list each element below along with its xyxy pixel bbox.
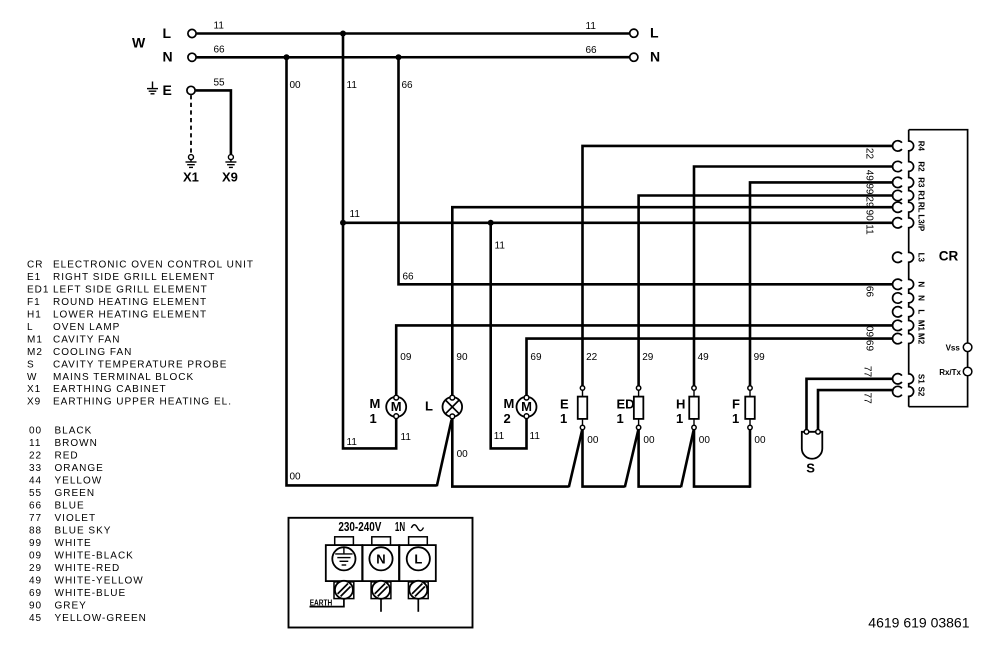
svg-text:WHITE-BLACK: WHITE-BLACK — [55, 550, 134, 561]
wire 00 from N line down and bottom bus left — [287, 57, 437, 485]
svg-text:L3: L3 — [917, 253, 926, 263]
element ED1 — [636, 386, 640, 390]
svg-text:22: 22 — [863, 148, 874, 160]
svg-text:M1: M1 — [917, 320, 926, 332]
terminal tab earth — [335, 537, 354, 545]
svg-text:GREEN: GREEN — [55, 488, 96, 499]
svg-text:11: 11 — [863, 224, 874, 235]
svg-text:99: 99 — [863, 183, 874, 195]
svg-text:S: S — [27, 359, 35, 370]
pin N connector arc — [893, 279, 902, 289]
svg-text:00: 00 — [29, 426, 42, 437]
svg-text:N: N — [650, 49, 660, 65]
svg-text:H1: H1 — [27, 310, 42, 321]
svg-text:Rx/Tx: Rx/Tx — [939, 368, 961, 377]
earth symbol X9 — [230, 160, 232, 162]
wire 00 from E1 down to bus — [583, 430, 625, 487]
svg-text:BLUE: BLUE — [55, 501, 85, 512]
svg-text:29: 29 — [863, 196, 874, 208]
svg-text:90: 90 — [29, 600, 42, 611]
wire 00 diagonal to H1 — [681, 430, 694, 487]
svg-text:N: N — [163, 49, 173, 65]
terminal L right circle — [630, 29, 638, 37]
svg-text:11: 11 — [586, 21, 597, 32]
svg-text:66: 66 — [29, 501, 42, 512]
svg-text:X1: X1 — [183, 170, 199, 185]
svg-text:R2: R2 — [917, 161, 926, 172]
screw earth — [335, 581, 353, 599]
terminal N right circle — [630, 53, 638, 61]
svg-text:77: 77 — [862, 393, 873, 405]
N terminal circle — [369, 547, 392, 570]
svg-text:RL: RL — [917, 202, 926, 213]
svg-text:BROWN: BROWN — [55, 438, 98, 449]
svg-text:CAVITY FAN: CAVITY FAN — [53, 334, 120, 345]
svg-text:W: W — [132, 35, 146, 51]
junction on L line — [340, 31, 346, 37]
svg-text:L: L — [414, 552, 422, 567]
svg-text:00: 00 — [754, 435, 766, 446]
earth symbol in circle — [343, 548, 345, 554]
wire 00 from ED1 down to bus — [639, 430, 681, 487]
svg-text:1: 1 — [617, 411, 624, 426]
svg-text:WHITE-BLUE: WHITE-BLUE — [55, 588, 127, 599]
svg-text:N: N — [376, 552, 385, 567]
earth symbol at E — [152, 82, 154, 89]
terminal square L — [399, 545, 435, 581]
svg-text:69: 69 — [29, 588, 42, 599]
svg-text:L: L — [650, 25, 659, 41]
svg-text:M: M — [391, 399, 402, 414]
wire N line 66 — [197, 56, 630, 59]
wire 00 from F1 down to bus — [749, 430, 752, 488]
wire 77 from CR S1 to probe — [807, 379, 893, 431]
svg-text:GREY: GREY — [55, 600, 87, 611]
svg-text:S1: S1 — [917, 374, 926, 384]
svg-text:49: 49 — [698, 352, 710, 363]
wire 77 from CR S2 to probe — [818, 390, 893, 431]
pin R4 connector arc — [893, 141, 902, 151]
svg-text:49: 49 — [29, 575, 42, 586]
pin L3/P connector arc — [893, 218, 902, 228]
svg-text:11: 11 — [494, 431, 505, 442]
pin R3 connector arc — [893, 177, 902, 187]
svg-text:L: L — [27, 322, 34, 333]
earth screw wire stub — [310, 599, 344, 607]
svg-text:N: N — [917, 281, 926, 287]
L screw wire stub — [417, 599, 419, 612]
element H1 — [692, 386, 696, 390]
terminal N circle — [188, 53, 196, 61]
wire 29 from ED1 to CR — [639, 196, 893, 386]
wire 09 from M1 to CR pin M1 — [396, 325, 893, 396]
svg-text:29: 29 — [29, 563, 42, 574]
svg-text:2: 2 — [504, 411, 511, 426]
svg-text:M2: M2 — [27, 347, 43, 358]
svg-text:X9: X9 — [27, 397, 41, 408]
svg-text:99: 99 — [29, 538, 42, 549]
svg-text:66: 66 — [214, 44, 226, 55]
svg-text:11: 11 — [347, 437, 358, 448]
wire 49 from H1 to CR — [694, 167, 893, 386]
pin M2 connector arc — [893, 333, 902, 343]
wire 69 from M2 to CR pin M2 — [527, 339, 893, 397]
svg-text:E: E — [560, 397, 569, 412]
svg-text:RIGHT SIDE GRILL ELEMENT: RIGHT SIDE GRILL ELEMENT — [53, 272, 215, 283]
pin L3 connector arc — [893, 252, 902, 262]
svg-text:1: 1 — [732, 411, 739, 426]
svg-text:4619 619 03861: 4619 619 03861 — [868, 615, 969, 631]
svg-text:M1: M1 — [27, 334, 43, 345]
svg-text:1: 1 — [676, 411, 683, 426]
svg-text:1: 1 — [370, 411, 377, 426]
svg-text:M: M — [370, 396, 381, 411]
pin M1 connector arc — [893, 320, 902, 330]
svg-text:EARTH: EARTH — [310, 599, 333, 608]
svg-text:22: 22 — [29, 451, 42, 462]
motor M1 — [386, 397, 406, 417]
pin R2 connector arc — [893, 161, 902, 171]
svg-text:S2: S2 — [917, 387, 926, 397]
svg-text:E1: E1 — [27, 272, 41, 283]
svg-text:11: 11 — [530, 431, 541, 442]
svg-text:11: 11 — [214, 21, 225, 32]
svg-text:1: 1 — [560, 411, 567, 426]
pin RL connector arc — [893, 202, 902, 212]
svg-text:WHITE: WHITE — [55, 538, 92, 549]
svg-text:YELLOW: YELLOW — [55, 476, 103, 487]
svg-text:00: 00 — [290, 471, 302, 482]
junction 11 bus to M2 — [488, 220, 494, 226]
element E1 — [580, 386, 584, 390]
svg-text:00: 00 — [643, 435, 655, 446]
svg-text:RED: RED — [55, 451, 79, 462]
motor M2 — [517, 397, 537, 417]
junction 11 bus — [340, 220, 346, 226]
wire 66 from N line to CR pin N — [399, 57, 893, 284]
svg-text:M2: M2 — [917, 333, 926, 345]
wire 00 from H1 down to bus — [694, 430, 750, 487]
terminal square N — [363, 545, 399, 581]
svg-text:69: 69 — [863, 340, 874, 352]
svg-text:11: 11 — [29, 438, 41, 449]
svg-text:L: L — [917, 309, 926, 314]
screw square N — [371, 582, 391, 599]
svg-text:00: 00 — [587, 435, 599, 446]
junction N line to wire 00 — [284, 54, 290, 60]
pin S2 connector arc — [893, 386, 902, 396]
svg-text:EARTHING UPPER HEATING EL.: EARTHING UPPER HEATING EL. — [53, 397, 232, 408]
svg-text:BLUE SKY: BLUE SKY — [55, 525, 112, 536]
svg-text:90: 90 — [456, 352, 468, 363]
svg-text:WHITE-YELLOW: WHITE-YELLOW — [55, 575, 144, 586]
svg-text:69: 69 — [530, 352, 542, 363]
svg-text:L3/P: L3/P — [917, 214, 926, 232]
svg-text:MAINS TERMINAL BLOCK: MAINS TERMINAL BLOCK — [53, 372, 194, 383]
temperature probe S — [802, 432, 823, 459]
terminal square earth — [326, 545, 362, 581]
svg-text:Vss: Vss — [946, 344, 961, 353]
svg-text:VIOLET: VIOLET — [55, 513, 97, 524]
svg-text:33: 33 — [29, 463, 42, 474]
svg-text:77: 77 — [862, 366, 873, 378]
svg-text:EARTHING CABINET: EARTHING CABINET — [53, 384, 167, 395]
junction N line to wire 66 — [396, 54, 402, 60]
svg-text:WHITE-RED: WHITE-RED — [55, 563, 121, 574]
svg-text:00: 00 — [457, 449, 469, 460]
terminal L circle — [188, 29, 196, 37]
svg-text:E: E — [163, 82, 172, 98]
svg-text:ORANGE: ORANGE — [55, 463, 104, 474]
svg-text:L: L — [425, 399, 433, 414]
oven lamp L — [443, 397, 463, 417]
svg-text:09: 09 — [400, 352, 412, 363]
wire 90 from lamp to CR pin RL — [452, 207, 893, 396]
wire 11 branch to M2 loop — [491, 223, 527, 449]
svg-text:R4: R4 — [917, 141, 926, 152]
svg-text:11: 11 — [347, 80, 358, 91]
pin L connector arc — [893, 307, 902, 317]
earth symbol X1 — [190, 160, 192, 162]
terminal tab L — [409, 537, 428, 545]
svg-text:00: 00 — [699, 435, 711, 446]
pin N connector arc — [893, 293, 902, 303]
terminal tab N — [372, 537, 391, 545]
svg-text:44: 44 — [29, 476, 42, 487]
AC tilde symbol — [411, 525, 423, 531]
terminal E circle — [187, 86, 195, 94]
svg-text:N: N — [917, 295, 926, 301]
svg-text:99: 99 — [754, 352, 766, 363]
svg-text:ED1: ED1 — [27, 285, 49, 296]
wire 00 diagonal to lamp — [437, 420, 452, 487]
svg-text:11: 11 — [401, 432, 412, 443]
power input block outline — [289, 518, 473, 628]
svg-text:L: L — [163, 25, 172, 41]
svg-text:45: 45 — [29, 613, 42, 624]
svg-text:LEFT SIDE GRILL ELEMENT: LEFT SIDE GRILL ELEMENT — [53, 285, 208, 296]
Vss terminal circle — [963, 343, 972, 352]
svg-text:66: 66 — [863, 286, 874, 298]
wire 99 from F1 to CR — [750, 182, 893, 385]
svg-text:R3: R3 — [917, 177, 926, 188]
svg-text:YELLOW-GREEN: YELLOW-GREEN — [55, 613, 147, 624]
svg-text:X1: X1 — [27, 384, 41, 395]
svg-text:11: 11 — [350, 209, 361, 220]
svg-text:F: F — [732, 397, 740, 412]
svg-text:M: M — [521, 399, 532, 414]
svg-text:09: 09 — [29, 550, 42, 561]
svg-text:LOWER HEATING ELEMENT: LOWER HEATING ELEMENT — [53, 310, 207, 321]
wire 11 bus to CR pin L3/P — [343, 222, 893, 225]
svg-text:X9: X9 — [222, 170, 238, 185]
earth terminal circle — [332, 547, 355, 570]
screw L — [409, 581, 427, 599]
svg-text:00: 00 — [290, 80, 302, 91]
screw N — [372, 581, 390, 599]
wire 22 from E1 to CR — [583, 146, 893, 386]
Rx/Tx terminal circle — [963, 367, 972, 376]
screw square earth — [334, 582, 354, 599]
svg-text:M: M — [504, 396, 515, 411]
N screw wire stub — [380, 599, 382, 612]
svg-text:11: 11 — [495, 241, 506, 252]
wire 00 diagonal to ED1 — [625, 430, 638, 487]
svg-text:29: 29 — [642, 352, 654, 363]
svg-text:55: 55 — [29, 488, 42, 499]
op-amp CR control unit box — [909, 130, 914, 407]
pin S1 connector arc — [893, 374, 902, 384]
svg-text:22: 22 — [586, 352, 598, 363]
svg-text:OVEN LAMP: OVEN LAMP — [53, 322, 120, 333]
element F1 — [748, 386, 752, 390]
svg-text:R1: R1 — [917, 190, 926, 201]
svg-text:ED: ED — [617, 397, 635, 412]
svg-text:CR: CR — [27, 260, 43, 271]
svg-text:90: 90 — [863, 210, 874, 222]
svg-text:ROUND HEATING ELEMENT: ROUND HEATING ELEMENT — [53, 297, 207, 308]
svg-text:H: H — [676, 397, 685, 412]
svg-text:COOLING FAN: COOLING FAN — [53, 347, 132, 358]
svg-text:F1: F1 — [27, 297, 41, 308]
svg-text:09: 09 — [863, 326, 874, 338]
svg-text:CAVITY TEMPERATURE PROBE: CAVITY TEMPERATURE PROBE — [53, 359, 227, 370]
svg-text:S: S — [806, 460, 815, 475]
svg-text:ELECTRONIC OVEN CONTROL UNIT: ELECTRONIC OVEN CONTROL UNIT — [53, 260, 254, 271]
svg-text:BLACK: BLACK — [55, 426, 93, 437]
svg-text:88: 88 — [29, 525, 42, 536]
svg-text:CR: CR — [939, 249, 959, 264]
svg-text:66: 66 — [403, 272, 415, 283]
screw square L — [408, 582, 428, 599]
svg-text:230-240V: 230-240V — [338, 519, 381, 534]
dashed wire E to X1 — [190, 95, 192, 154]
wire 11 from L line down to M1 loop — [343, 34, 396, 449]
wire 00 from lamp down to right bus — [452, 419, 569, 487]
wire 55 from E to X9 — [196, 90, 231, 154]
svg-text:66: 66 — [586, 45, 598, 56]
svg-text:66: 66 — [402, 80, 414, 91]
svg-text:77: 77 — [29, 513, 42, 524]
wire 00 diagonal to E1 — [569, 430, 582, 487]
svg-text:W: W — [27, 372, 37, 383]
terminal X1 circle — [189, 155, 194, 160]
pin R1 connector arc — [893, 190, 902, 200]
svg-text:55: 55 — [214, 78, 226, 89]
terminal X9 circle — [228, 155, 233, 160]
L terminal circle — [407, 547, 430, 570]
svg-text:49: 49 — [863, 170, 874, 182]
wire L line 11 — [197, 32, 630, 35]
svg-text:1N: 1N — [395, 519, 405, 534]
